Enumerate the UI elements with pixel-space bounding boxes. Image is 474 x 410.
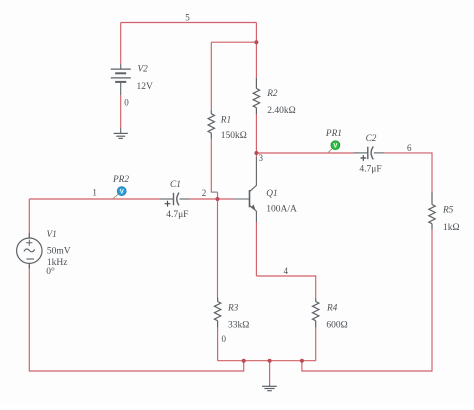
wire node 3 horizontal to C2 [256,152,353,154]
junction bottom right [300,359,304,363]
junction node 2 [216,197,220,201]
svg-text:0: 0 [221,334,226,344]
junction bottom ground [268,359,272,363]
svg-text:5: 5 [185,13,190,23]
junction node 3 [254,151,258,155]
wire R3 bottom vertical [217,328,219,361]
svg-text:PR2: PR2 [112,175,129,185]
wire jog down to node 2 [217,192,219,199]
battery V2 [111,64,131,95]
probe PR1 [328,141,340,153]
wire R1 bottom to node 2 jog [210,139,212,193]
wire V1 top vertical [28,199,30,238]
wire C1 right to node 2 and Q1 base [190,198,233,200]
svg-text:R5: R5 [442,206,454,216]
wire net 4 horizontal to R4 [256,276,315,298]
svg-text:3: 3 [258,153,263,163]
ground bottom center [262,384,277,391]
wire net 5 right vertical drop to junction [255,23,257,43]
wire bottom net 0 between R3 and R4 [218,360,316,362]
wire node 3 red stub below junction [255,153,257,157]
wire R4 bottom vertical [315,328,317,361]
svg-text:V2: V2 [138,65,149,75]
wire node 2 down to R3 [217,199,219,298]
svg-text:R4: R4 [326,304,338,314]
resistor R1 [208,110,214,138]
wire R1 top vertical [210,42,212,110]
probe PR2 [113,187,126,199]
svg-text:1: 1 [92,188,97,198]
svg-text:2.40kΩ: 2.40kΩ [267,106,295,116]
svg-text:R3: R3 [227,304,239,314]
junction node 5 [254,40,258,44]
R1 pin jog horizontal [211,191,218,193]
svg-text:1kΩ: 1kΩ [443,223,460,233]
svg-text:V: V [120,189,124,195]
capacitor C1 [159,193,190,206]
svg-text:V: V [333,144,337,150]
svg-text:R2: R2 [266,89,278,99]
wire V2 top lead vertical [120,23,122,64]
svg-text:PR1: PR1 [325,129,342,139]
wire junction 5 to R1 horizontal [211,41,256,43]
wire R2 top vertical [255,42,257,78]
wire Q1 emitter down to node 4 [255,222,257,276]
svg-text:33kΩ: 33kΩ [228,321,249,331]
svg-text:4: 4 [284,266,289,276]
svg-text:4.7μF: 4.7μF [166,210,188,220]
svg-text:4.7μF: 4.7μF [359,164,381,174]
wire net 5 top horizontal V2 to R1/R2 branch [121,22,257,24]
resistor R5 [429,192,435,230]
svg-text:50mV: 50mV [47,247,71,257]
resistor R3 [214,298,220,328]
svg-text:150kΩ: 150kΩ [221,131,247,141]
svg-text:C2: C2 [366,134,377,144]
svg-text:R1: R1 [220,116,231,126]
wire V1 bottom left loop [29,264,243,372]
svg-text:V1: V1 [47,230,57,240]
svg-text:0°: 0° [46,266,55,277]
wire node 1 horizontal V1 to C1 [29,198,159,200]
transistor Q1 [233,157,256,222]
C2 polarity plus [360,155,366,161]
junction bottom left [242,359,246,363]
wire R5 bottom right loop [302,230,432,372]
ground under V2 [114,128,128,138]
svg-text:2: 2 [202,188,207,198]
svg-text:600Ω: 600Ω [326,321,347,331]
capacitor C2 [353,147,384,160]
svg-text:100A/A: 100A/A [266,205,297,215]
wire ground drop from bottom net [269,361,271,385]
wire R2 bottom to node 3 [255,114,257,153]
svg-text:0: 0 [124,98,129,108]
svg-text:6: 6 [407,143,412,153]
wire net 6 C2 to corner and down to R5 [384,153,432,192]
resistor R4 [313,298,319,327]
svg-text:C1: C1 [170,180,181,190]
C1 polarity plus [165,201,171,207]
resistor R2 [253,78,259,114]
AC source V1 [17,233,42,269]
svg-text:Q1: Q1 [266,189,277,199]
wire V2 bottom to ground [120,95,122,128]
svg-text:12V: 12V [137,82,154,92]
